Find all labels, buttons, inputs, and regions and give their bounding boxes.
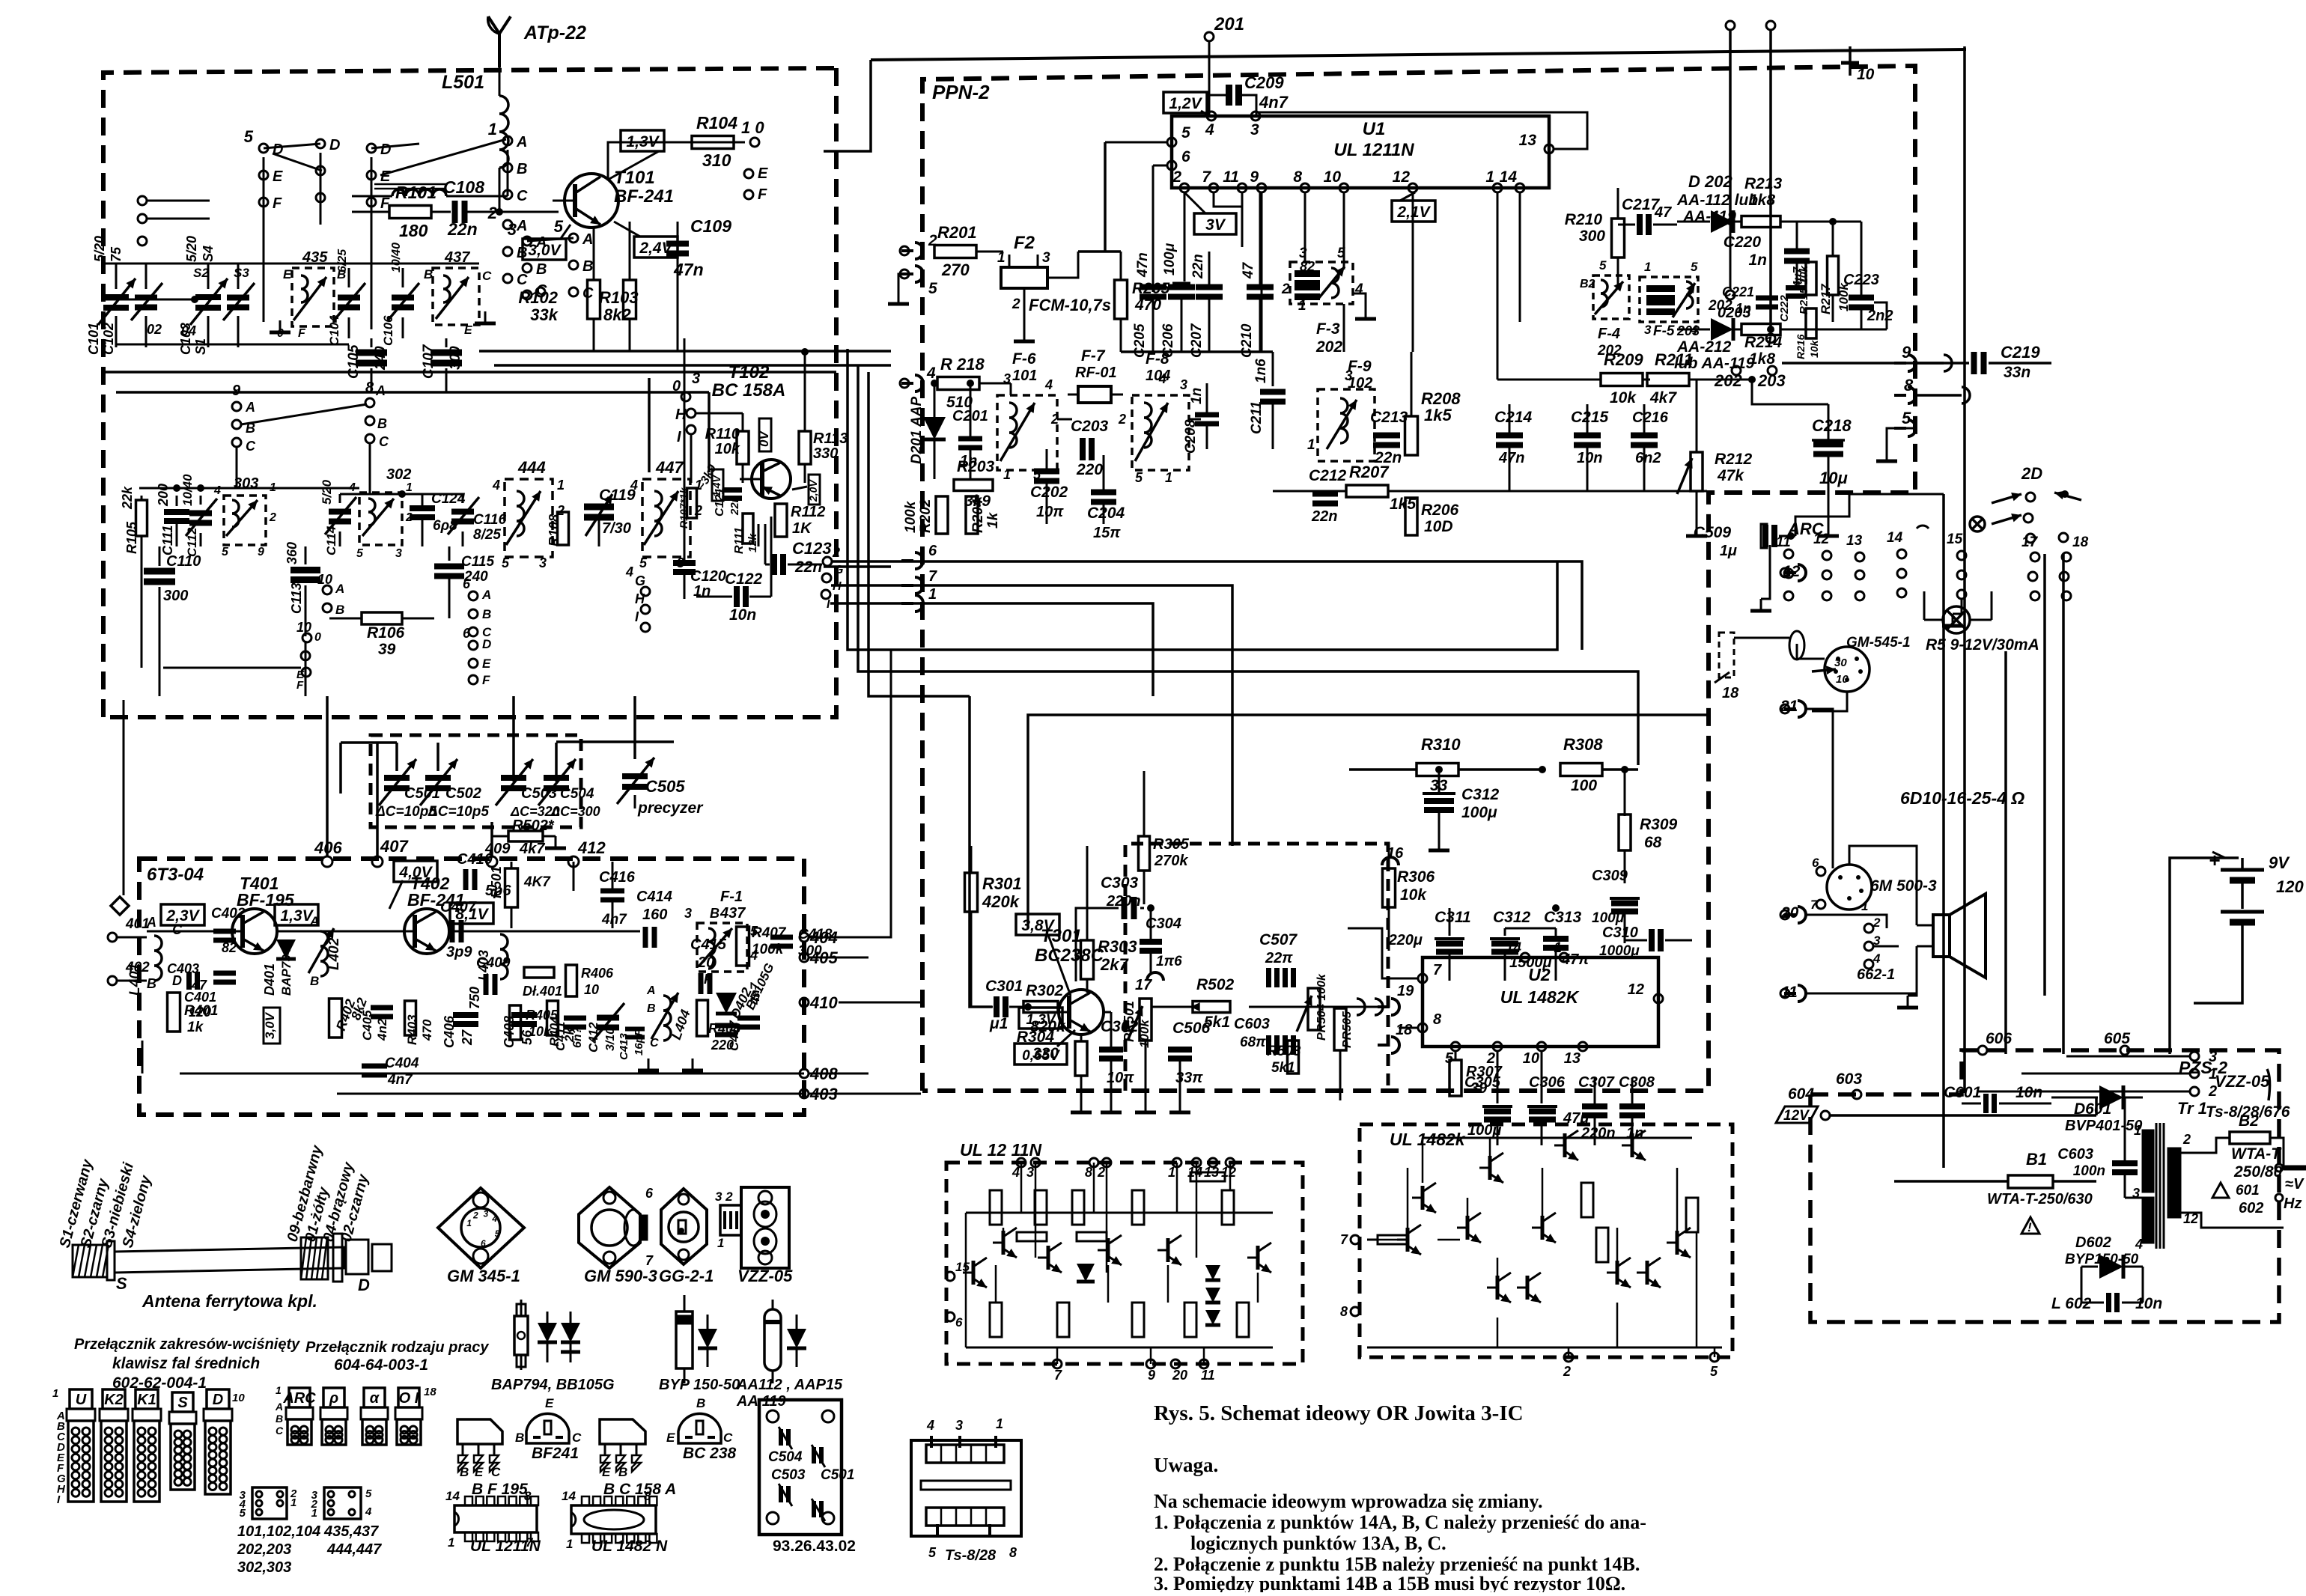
wire battery top [2170, 852, 2239, 1054]
svg-text:605: 605 [2104, 1030, 2130, 1047]
labels C311 C312 C313 [1435, 909, 1582, 926]
tank 437 dashed box [424, 249, 496, 337]
svg-text:F: F [380, 195, 390, 212]
resistor R108 [547, 512, 569, 546]
capacitor C209 [1209, 73, 1289, 116]
switch table O [320, 1388, 347, 1445]
wire socket to speaker [1833, 846, 1917, 925]
resistor R402 [329, 996, 371, 1038]
filter F-5 dashed box [1640, 260, 1700, 339]
svg-text:18: 18 [2072, 534, 2089, 550]
svg-text:3. Pomiędzy punktami 14B a 15: 3. Pomiędzy punktami 14B a 15B musi być … [1154, 1573, 1625, 1592]
pin circles 2GHI [821, 545, 843, 611]
svg-text:330: 330 [1032, 1045, 1059, 1062]
svg-text:C: C [572, 1431, 582, 1445]
svg-text:2: 2 [832, 545, 840, 560]
capacitor C214 [1494, 404, 1533, 491]
wire gang caps top [341, 696, 674, 794]
wire emitter rail [594, 314, 678, 352]
svg-text:D 202: D 202 [1688, 172, 1732, 191]
svg-text:R406: R406 [581, 966, 614, 981]
svg-text:9: 9 [1148, 1368, 1155, 1383]
svg-text:10k: 10k [715, 441, 740, 457]
resistor R501 [489, 862, 551, 928]
svg-text:270: 270 [941, 261, 970, 279]
svg-text:10n: 10n [2016, 1084, 2042, 1101]
svg-text:8: 8 [1085, 1165, 1092, 1180]
switch bank column 2AB [487, 204, 528, 288]
svg-text:D: D [482, 637, 491, 651]
svg-text:B: B [515, 1431, 524, 1445]
wire right vertical 2624 [1963, 46, 1966, 1093]
svg-text:435,437: 435,437 [323, 1523, 379, 1540]
resistor R218 [937, 355, 1011, 411]
wire pin5 down [1078, 142, 1121, 252]
voltage 3,0V [523, 225, 571, 260]
resistor R111 [733, 514, 759, 554]
svg-text:R501: R501 [489, 866, 504, 898]
capacitor C413 [618, 1029, 645, 1060]
svg-text:4,0V: 4,0V [398, 864, 433, 881]
wire bus 6 [832, 561, 1582, 650]
antenna right coupler [301, 1234, 392, 1294]
svg-text:A: A [481, 588, 491, 602]
svg-text:4: 4 [365, 1505, 372, 1518]
svg-text:F: F [298, 327, 306, 340]
svg-text:1,3V: 1,3V [1026, 1012, 1056, 1028]
svg-text:18: 18 [424, 1386, 436, 1398]
svg-text:3: 3 [1042, 250, 1050, 266]
svg-text:C405: C405 [360, 1010, 374, 1041]
note line 0 [1154, 1490, 1542, 1512]
resistor R112 [775, 503, 825, 537]
switch table K1 [133, 1389, 161, 1502]
svg-text:C: C [582, 285, 594, 302]
svg-text:BF241: BF241 [532, 1445, 579, 1462]
svg-text:B: B [647, 1002, 656, 1015]
wire 12V rail [1782, 1093, 1825, 1138]
svg-text:5: 5 [365, 1487, 372, 1500]
svg-text:C218: C218 [1812, 416, 1852, 435]
svg-text:I: I [827, 598, 830, 611]
connector arc 4 [900, 365, 936, 392]
svg-text:3,8V: 3,8V [1021, 917, 1055, 934]
svg-text:201: 201 [1214, 14, 1244, 34]
svg-text:S: S [116, 1274, 127, 1293]
svg-text:L402: L402 [326, 937, 342, 970]
svg-text:3: 3 [684, 906, 692, 921]
voltage 1,3V c [1019, 1008, 1062, 1029]
svg-text:3: 3 [1026, 1165, 1034, 1180]
label R5 [1926, 636, 2039, 654]
case GG-2-1 [659, 1189, 714, 1285]
svg-text:14: 14 [1506, 940, 1522, 956]
wire sw vert b [494, 150, 508, 196]
pin circles T102 top [672, 371, 700, 445]
svg-text:7/30: 7/30 [602, 520, 631, 537]
svg-text:47n: 47n [1135, 252, 1151, 278]
svg-text:82: 82 [1300, 259, 1315, 274]
svg-text:14: 14 [1500, 168, 1518, 186]
svg-text:C108: C108 [443, 177, 484, 197]
transistor T402 BF-241 [392, 909, 449, 954]
svg-text:2D: 2D [2021, 464, 2042, 483]
svg-text:C107: C107 [421, 344, 436, 379]
svg-text:E: E [464, 324, 473, 337]
wire sw vert a [264, 153, 371, 329]
svg-text:10/40: 10/40 [390, 243, 403, 272]
svg-text:B: B [517, 161, 527, 177]
svg-text:7: 7 [1433, 962, 1442, 978]
svg-text:PPN-2: PPN-2 [932, 81, 990, 103]
svg-text:3: 3 [539, 555, 547, 570]
svg-text:C305: C305 [1464, 1074, 1501, 1091]
svg-text:1: 1 [996, 1416, 1003, 1431]
UL1482k internal wires [1367, 1138, 1697, 1347]
svg-text:8k2: 8k2 [603, 305, 631, 324]
connector arcs 19 18 [1357, 983, 1414, 1053]
UL1211N internal mesh [963, 1172, 1273, 1347]
svg-text:2: 2 [472, 1210, 478, 1221]
resistor R309 [1619, 770, 1678, 883]
trimmer C116 [448, 494, 506, 546]
svg-text:606: 606 [1986, 1030, 2012, 1047]
variable capacitor C502 [420, 759, 481, 805]
capacitor C121 [714, 488, 742, 517]
UL1482k internal mesh [1367, 1130, 1722, 1347]
svg-text:A: A [309, 914, 319, 928]
svg-text:6n2: 6n2 [1635, 450, 1661, 466]
lamp icon small [1970, 517, 1985, 532]
resistor R307 [1449, 1051, 1503, 1097]
svg-text:α: α [370, 1390, 380, 1407]
switch label 20 top [1992, 464, 2081, 543]
svg-text:D: D [329, 137, 340, 153]
diode D202 [1676, 172, 1758, 233]
switch link c [527, 238, 574, 241]
wire sw region b [1638, 558, 1902, 650]
resistor R105 [120, 486, 147, 555]
voltage 3V [1184, 192, 1236, 234]
resistor R217 [1819, 222, 1851, 322]
diode BYP150-50 [659, 1295, 740, 1393]
capacitor C507 [1259, 931, 1298, 987]
svg-text:12: 12 [1813, 532, 1830, 547]
switch column 12 [1813, 532, 1831, 600]
capacitor C122 [696, 517, 771, 624]
svg-text:5: 5 [244, 127, 254, 146]
svg-text:C105: C105 [346, 344, 362, 379]
filter F-7 RF-01 [1068, 347, 1123, 403]
switch bank mid b [463, 576, 492, 639]
UL1482k left pins [1340, 1232, 1360, 1319]
label T402 [407, 874, 465, 910]
capacitor C303 [1086, 874, 1141, 1007]
connector arc 2 [900, 232, 937, 259]
wire det out [1827, 218, 1887, 329]
U1 left pins [1167, 124, 1190, 170]
svg-text:C203: C203 [1071, 418, 1109, 435]
svg-text:22k: 22k [120, 486, 135, 510]
voltage 2,4V [614, 222, 678, 258]
svg-text:B C 158 A: B C 158 A [603, 1481, 676, 1498]
variable capacitor C503 [496, 759, 557, 805]
svg-text:C101: C101 [86, 323, 101, 355]
svg-text:602-62-004-1: 602-62-004-1 [112, 1374, 207, 1392]
svg-text:C409: C409 [476, 955, 511, 971]
antenna ATp-22 [488, 16, 511, 67]
svg-text:10: 10 [584, 982, 599, 997]
svg-text:18: 18 [1722, 685, 1739, 701]
svg-text:1: 1 [1003, 467, 1011, 482]
svg-text:Rys. 5. Schemat ideowy OR Jowi: Rys. 5. Schemat ideowy OR Jowita 3-IC [1154, 1401, 1524, 1425]
capacitor C203 [1071, 418, 1109, 478]
tuner tank row wires [105, 264, 479, 344]
tuner long bus e [648, 378, 651, 472]
wire U1 pin5 [1105, 141, 1168, 144]
svg-text:5/20: 5/20 [320, 479, 334, 505]
svg-text:Ts-8/28: Ts-8/28 [945, 1547, 997, 1564]
svg-text:C109: C109 [690, 216, 731, 236]
svg-text:PR501: PR501 [1122, 1001, 1137, 1042]
wires F row [1011, 383, 1207, 419]
connector arc 21 [1780, 698, 1806, 717]
svg-text:101,102,104: 101,102,104 [237, 1523, 320, 1540]
svg-text:47k: 47k [1717, 467, 1744, 484]
wire B1 path [1833, 1097, 2096, 1198]
svg-text:E: E [380, 168, 391, 185]
svg-text:10: 10 [296, 620, 311, 635]
resistor R101 [389, 183, 451, 240]
svg-text:Antena ferrytowa kpl.: Antena ferrytowa kpl. [142, 1291, 317, 1311]
svg-text:C403: C403 [167, 961, 199, 976]
svg-text:6T3-04: 6T3-04 [147, 865, 204, 885]
svg-text:6: 6 [645, 1186, 654, 1201]
svg-text:VZZ-05: VZZ-05 [737, 1267, 793, 1285]
rotated labels S1-S4 [57, 1157, 155, 1250]
svg-text:203: 203 [1676, 323, 1700, 338]
svg-text:C410: C410 [457, 851, 493, 868]
voltage 3,8V [1016, 914, 1071, 996]
svg-text:102: 102 [1348, 375, 1372, 392]
svg-text:C306: C306 [1529, 1074, 1566, 1091]
svg-text:407: 407 [380, 837, 409, 856]
tank 435 dashed box [270, 249, 346, 340]
switch bank column 5ABC [554, 217, 594, 302]
capacitor C602 [2051, 1267, 2162, 1312]
wire right vertical 2596 [1942, 494, 1945, 1168]
label Tr1 [2177, 1099, 2290, 1121]
IF tank 444 [492, 458, 565, 570]
transistor T301 BC238C [1047, 990, 1104, 1035]
svg-text:5/20: 5/20 [184, 236, 199, 262]
transformer Tr1 primary [2143, 1130, 2153, 1243]
mains plug [2267, 1069, 2306, 1212]
resistor R207 [1346, 463, 1416, 513]
wire R306 vert [1388, 846, 1390, 868]
svg-text:5: 5 [928, 280, 937, 297]
svg-text:15: 15 [1947, 532, 1963, 547]
svg-text:B2: B2 [2239, 1112, 2259, 1130]
wires out 404 405 [809, 650, 921, 1094]
svg-text:9: 9 [1902, 343, 1911, 362]
wire C303 to R306 [1151, 908, 1389, 919]
svg-text:1: 1 [448, 1535, 454, 1550]
diode D402 [715, 961, 777, 1035]
diodes BAP794 [491, 1300, 615, 1393]
svg-text:1n6: 1n6 [1253, 359, 1269, 383]
svg-text:4: 4 [1011, 1165, 1020, 1180]
svg-text:B: B [147, 976, 156, 991]
svg-text:B2: B2 [1580, 278, 1595, 290]
svg-text:220: 220 [1076, 461, 1103, 478]
transistor T401 BF-195 [220, 909, 277, 954]
resistor R502b [1190, 976, 1235, 1031]
svg-text:10: 10 [1857, 66, 1875, 83]
svg-text:R405: R405 [526, 1008, 559, 1023]
svg-text:E: E [758, 165, 768, 182]
svg-text:C122: C122 [725, 570, 763, 588]
capacitor C221 [1722, 284, 1778, 316]
Tr1 pin labels [2132, 1123, 2198, 1252]
voltage 0V vert [757, 418, 771, 451]
svg-text:BYP 150-50: BYP 150-50 [659, 1377, 740, 1393]
capacitor C105 [346, 338, 389, 392]
svg-text:F-6: F-6 [1012, 350, 1036, 368]
svg-text:B: B [618, 1465, 627, 1479]
node labels 404 405 410 408 403 [800, 928, 838, 1103]
svg-text:ΔC=10p5: ΔC=10p5 [375, 804, 436, 820]
svg-text:Na schemacie ideowym wprowadza: Na schemacie ideowym wprowadza się zmian… [1154, 1490, 1542, 1512]
case GM345-1 [438, 1188, 524, 1285]
variable capacitor C504 [538, 759, 594, 805]
svg-text:602: 602 [2239, 1200, 2263, 1216]
resistor R216 [1795, 308, 1820, 359]
svg-text:F-9: F-9 [1348, 358, 1372, 375]
label ARC [1787, 520, 1825, 538]
svg-text:R203: R203 [957, 458, 995, 475]
wire T301 collector up [1073, 908, 1144, 988]
svg-text:662-1: 662-1 [1857, 966, 1895, 983]
svg-text:C204: C204 [1087, 505, 1125, 522]
pinout box 435 [311, 1487, 372, 1520]
resistor R306 [1383, 868, 1435, 951]
svg-text:B: B [310, 974, 319, 988]
svg-text:1: 1 [695, 478, 702, 493]
pilot lamp R5 [1924, 591, 1992, 633]
svg-text:C104: C104 [327, 315, 341, 346]
capacitor C311 [1388, 908, 1464, 981]
svg-text:C509: C509 [1694, 524, 1732, 541]
svg-text:47: 47 [191, 978, 207, 993]
wire R211 C218 [1722, 376, 1828, 404]
svg-text:9: 9 [258, 546, 264, 558]
svg-text:6: 6 [1812, 856, 1819, 870]
svg-text:F: F [296, 679, 304, 692]
svg-text:8: 8 [644, 1489, 651, 1503]
label 18 b [1715, 672, 1739, 701]
resistor R110 [705, 413, 749, 483]
svg-text:F: F [704, 972, 713, 987]
svg-text:B: B [582, 258, 593, 275]
wire arc20 wiring [1805, 915, 1887, 928]
capacitor C301 [971, 978, 1032, 1032]
connector arc 13t [1754, 604, 1756, 606]
ferrite antenna hatched block [73, 1241, 115, 1280]
svg-text:R210: R210 [1565, 211, 1603, 228]
resistor R408 [697, 1000, 741, 1053]
svg-text:160: 160 [642, 907, 667, 923]
IF tank 303 [139, 475, 359, 558]
resistor R404 [547, 1001, 577, 1047]
resistor R213 [1741, 175, 1827, 228]
svg-text:0V: 0V [757, 430, 771, 447]
svg-text:75: 75 [109, 246, 124, 262]
svg-text:Hz: Hz [2284, 1196, 2302, 1212]
svg-text:B: B [424, 267, 433, 281]
capacitor C220 [1724, 222, 1810, 289]
svg-text:R5 9-12V/30mA: R5 9-12V/30mA [1926, 636, 2039, 654]
coil L501 [499, 67, 508, 212]
resistor R304 [1017, 1029, 1092, 1112]
svg-text:R217: R217 [1819, 283, 1833, 314]
wire right vertical 2731 [2043, 554, 2046, 996]
svg-text:7: 7 [928, 568, 937, 585]
svg-text:C: C [379, 434, 389, 449]
svg-text:C106: C106 [381, 315, 395, 346]
voltage 2,0V vert [792, 475, 820, 505]
resistor R103 [599, 222, 639, 324]
wire row208 [1273, 490, 1707, 493]
tuner long bus d [116, 392, 709, 472]
svg-text:Przełącznik zakresów-wciśnięty: Przełącznik zakresów-wciśnięty [74, 1336, 300, 1353]
svg-text:R305: R305 [1153, 836, 1190, 853]
svg-text:≈V: ≈V [2285, 1176, 2305, 1193]
svg-text:C412: C412 [586, 1022, 600, 1053]
capacitor C208 [1183, 388, 1219, 454]
voltage 2,1V [1392, 192, 1435, 222]
svg-text:1: 1 [1485, 168, 1494, 186]
svg-text:μ1: μ1 [989, 1015, 1008, 1032]
svg-text:S3: S3 [234, 266, 249, 280]
svg-text:R 218: R 218 [940, 355, 985, 374]
svg-text:100: 100 [1571, 777, 1597, 794]
svg-text:D: D [380, 141, 391, 158]
svg-text:14: 14 [562, 1489, 576, 1503]
svg-text:C503: C503 [771, 1467, 806, 1483]
svg-text:1. Połączenia z punktów 14A,: 1. Połączenia z punktów 14A, B, C należy… [1154, 1511, 1646, 1533]
svg-text:202,203: 202,203 [237, 1541, 291, 1558]
tuner row2 wires [142, 443, 449, 696]
resistor R202 R204 [903, 496, 1001, 534]
svg-text:4: 4 [1205, 121, 1214, 138]
coil L404 [646, 984, 693, 1050]
svg-text:R108: R108 [547, 514, 562, 546]
svg-text:7: 7 [1810, 898, 1819, 912]
svg-text:C220: C220 [1724, 234, 1762, 251]
svg-text:14: 14 [445, 1489, 460, 1503]
svg-text:3: 3 [955, 1418, 963, 1433]
variable capacitor C505 precyzer [617, 15, 704, 817]
capacitor C113 [285, 542, 320, 636]
svg-text:C303: C303 [1101, 874, 1139, 892]
svg-text:C507: C507 [1259, 931, 1298, 948]
note line 3 [1154, 1573, 1625, 1595]
svg-text:C603: C603 [1234, 1016, 1270, 1032]
U1 top pins [1205, 112, 1260, 138]
svg-text:1n: 1n [1735, 301, 1751, 316]
wire T102 stage [691, 413, 781, 546]
